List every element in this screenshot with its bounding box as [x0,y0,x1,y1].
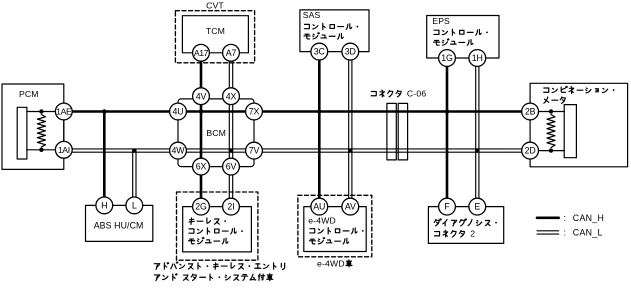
svg-text:2I: 2I [227,202,234,212]
svg-text:4W: 4W [172,146,186,156]
svg-text:2: 2 [470,229,475,239]
svg-text:4X: 4X [226,91,237,101]
svg-text:3D: 3D [345,47,356,57]
svg-text:A7: A7 [226,48,237,58]
svg-text:CAN_L: CAN_L [573,228,603,238]
svg-text::: : [564,228,567,238]
svg-text:e-4WD: e-4WD [317,258,345,268]
svg-text:6V: 6V [226,162,237,172]
svg-text:2G: 2G [195,202,207,212]
svg-text:F: F [444,202,450,212]
svg-text:7V: 7V [249,146,260,156]
svg-text:1AE: 1AE [56,107,72,117]
svg-text:AU: AU [313,202,325,212]
svg-text:AV: AV [345,202,356,212]
svg-text:EPS: EPS [432,16,450,26]
svg-text:ABS HU/CM: ABS HU/CM [94,221,144,231]
svg-text:L: L [132,201,137,211]
svg-text::: : [564,213,567,223]
svg-text:E: E [474,202,480,212]
svg-text:6X: 6X [196,162,207,172]
svg-text:1G: 1G [441,53,453,63]
svg-text:7X: 7X [249,107,260,117]
svg-text:1AI: 1AI [58,145,70,155]
svg-text:SAS: SAS [303,10,321,20]
svg-text:C-06: C-06 [407,89,426,99]
svg-text:PCM: PCM [19,89,39,99]
svg-text:2D: 2D [525,146,536,156]
svg-text:H: H [101,201,107,211]
svg-text:4U: 4U [172,107,183,117]
svg-text:e-4WD: e-4WD [308,215,336,225]
svg-text:3C: 3C [314,47,326,57]
svg-text:2B: 2B [525,107,536,117]
svg-text:4V: 4V [196,91,207,101]
svg-text:1H: 1H [472,53,483,63]
svg-text:CVT: CVT [206,0,224,10]
svg-text:TCM: TCM [206,26,225,36]
svg-text:A17: A17 [194,48,209,58]
svg-text:CAN_H: CAN_H [573,213,604,223]
svg-text:BCM: BCM [206,128,226,138]
